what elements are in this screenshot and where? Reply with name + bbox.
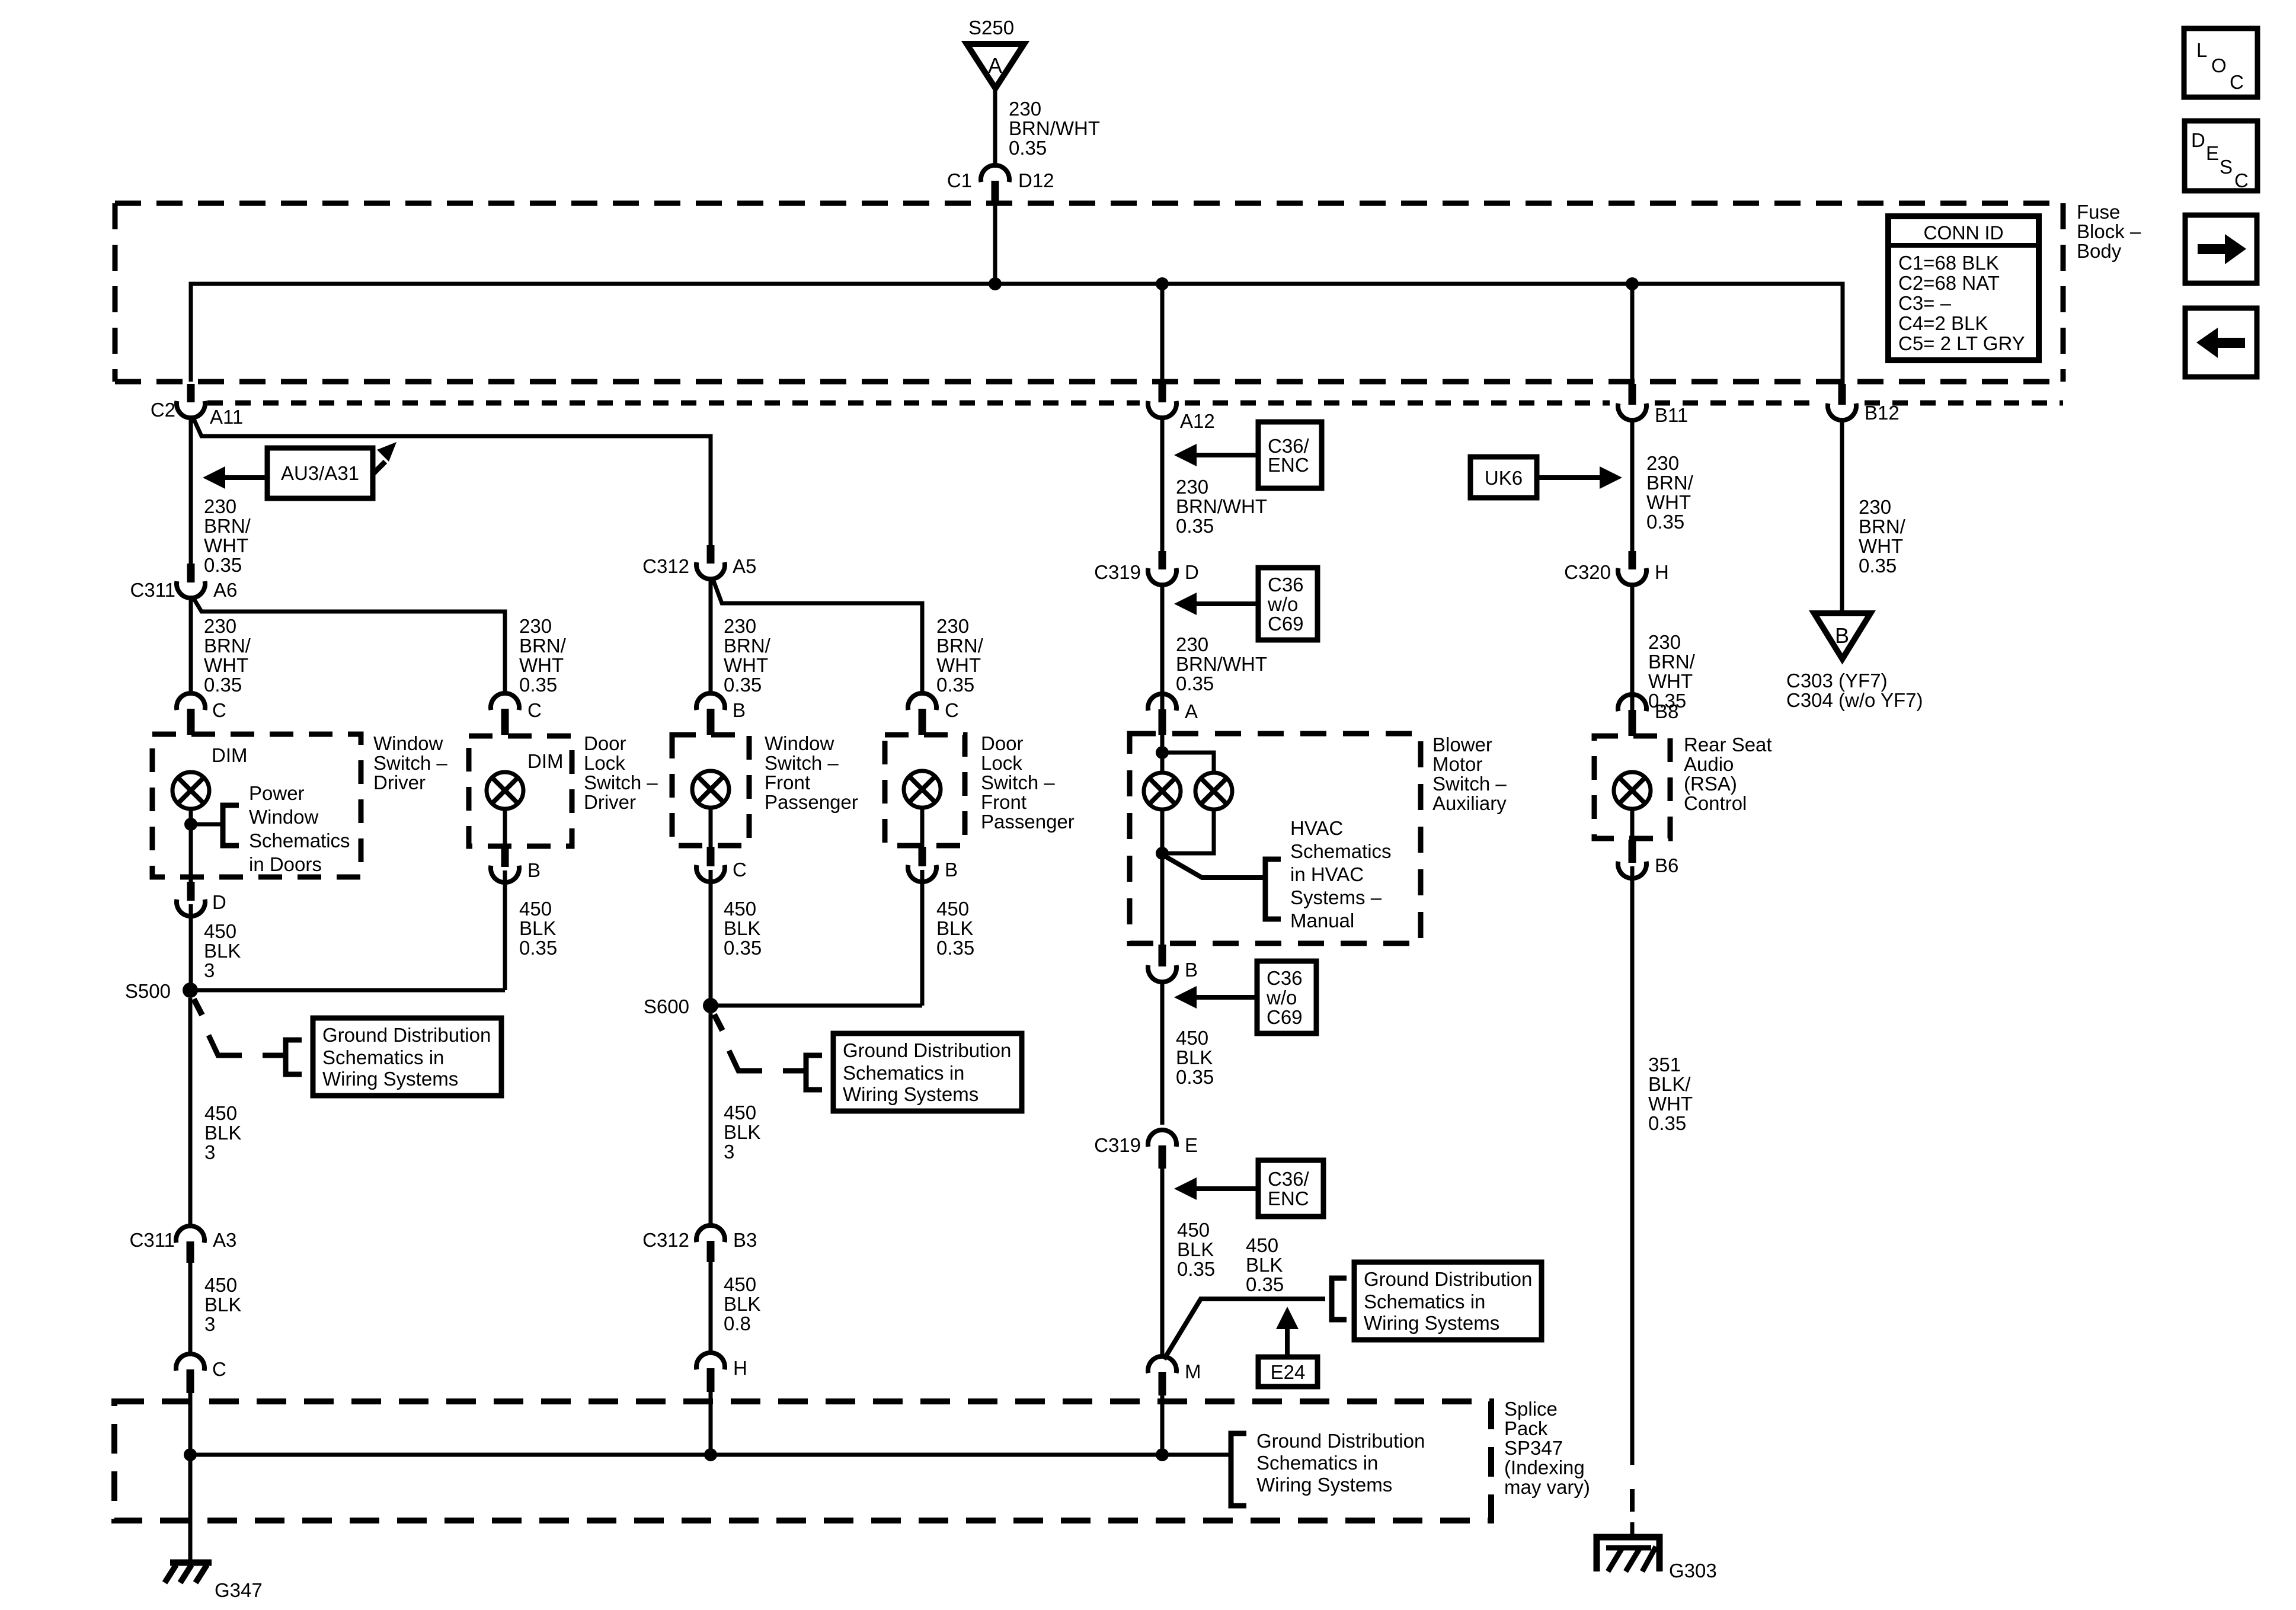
junction bus at A12 drop: [1156, 277, 1169, 290]
connector splice pack pin M: [1148, 1356, 1176, 1395]
wire blower lamp 2 feed: [1162, 753, 1214, 773]
wire lamp to junction: [189, 808, 193, 824]
wire wire 1 below C2: [189, 418, 193, 564]
reference box gd-s600: [833, 1033, 1022, 1111]
wire wire 7 B12 down: [1840, 420, 1844, 613]
dashed box window switch front passenger: [672, 735, 749, 846]
wire pin B to S600 (dl fp): [920, 870, 925, 1006]
wire wire 1 to G347: [188, 1455, 193, 1560]
svg-text:C320: C320: [1564, 561, 1611, 583]
svg-text:B: B: [945, 859, 958, 881]
connector blower motor switch pin B: [1148, 945, 1176, 982]
junction blower lamp junction bottom: [1156, 847, 1169, 860]
svg-text:C1: C1: [947, 169, 972, 191]
connector C311 pin A3: [176, 1226, 204, 1263]
wire blower lamp feed: [1160, 735, 1165, 773]
wire S500 ground stub: [194, 999, 202, 1015]
svg-text:C: C: [527, 699, 542, 721]
wire C into splice pack: [188, 1393, 193, 1455]
svg-text:B: B: [527, 859, 541, 881]
connector C319 pin E: [1148, 1130, 1176, 1169]
svg-text:B8: B8: [1655, 700, 1678, 722]
connector window switch driver pin C: [177, 693, 205, 735]
wire C1 to bus: [993, 204, 997, 284]
wire lamp to pin B: [503, 808, 507, 849]
junction bus at B11 drop: [1626, 277, 1639, 290]
bracket ground distribution M: [1332, 1278, 1347, 1320]
wire fuse block bus: [191, 284, 1843, 384]
bracket ground distribution S600: [806, 1055, 822, 1090]
svg-text:B6: B6: [1655, 854, 1678, 876]
svg-text:DIM: DIM: [212, 744, 248, 766]
reference box c36woc69-1: [1258, 568, 1318, 640]
wire wire 5 A12 to C319 D: [1160, 418, 1165, 551]
lamp blower switch illumination 2: [1195, 773, 1232, 809]
connector door lock front passenger pin B: [908, 847, 936, 882]
arrow UK6 to wire: [1537, 466, 1622, 489]
wire S500 to door lock driver B: [190, 988, 505, 993]
junction bus at C1: [989, 277, 1002, 290]
svg-text:D: D: [1185, 561, 1199, 583]
junction power window schematics tap: [184, 818, 197, 831]
CONN ID table: [1888, 216, 2039, 360]
bracket ground distribution SP347: [1231, 1433, 1246, 1506]
wire HVAC schematics tap: [1164, 856, 1265, 878]
splice reference triangle B (C303/C304): [1814, 613, 1870, 659]
wire lamp2 return: [1162, 809, 1214, 853]
wire wire 1 A6 to lamp C: [189, 598, 193, 691]
svg-text:S250: S250: [968, 17, 1014, 39]
wire wire 3 A5 to pin B: [709, 579, 713, 691]
svg-text:C36w/oC69: C36w/oC69: [1267, 574, 1304, 635]
arrow AU3/A31 to wire: [203, 466, 267, 489]
wire ground distribution tap at M: [1164, 1299, 1325, 1359]
reference box c36enc-2: [1258, 1160, 1323, 1217]
svg-text:C36w/oC69: C36w/oC69: [1266, 967, 1303, 1028]
svg-text:C36/ENC: C36/ENC: [1268, 1168, 1310, 1209]
svg-text:A12: A12: [1180, 410, 1215, 432]
svg-text:C311: C311: [130, 579, 175, 601]
connector C2 pin A11: [177, 384, 205, 418]
wire A11 branch to C312: [193, 417, 711, 546]
junction splice pack at wire 5: [1156, 1448, 1169, 1461]
reference box c36enc-1: [1258, 422, 1322, 488]
svg-text:A: A: [1185, 700, 1198, 722]
fuse block body dashed outline: [115, 203, 2063, 382]
reference box e24: [1258, 1357, 1318, 1387]
wire lamp to pin B6: [1630, 808, 1635, 841]
junction splice pack at wire 3: [704, 1448, 717, 1461]
arrow C36/ENC upper to wire: [1174, 444, 1258, 466]
connector C1 pin D12: [981, 165, 1009, 204]
junction blower lamp junction top: [1156, 746, 1169, 759]
junction splice S600: [703, 998, 718, 1013]
svg-text:E24: E24: [1271, 1361, 1306, 1383]
nav box LOC: [2184, 28, 2257, 97]
svg-text:G347: G347: [215, 1579, 263, 1601]
connector window switch front passenger pin C: [696, 847, 725, 882]
wire S500 ground reference hook: [209, 1035, 242, 1055]
svg-text:450BLK0.35: 450BLK0.35: [1177, 1219, 1215, 1280]
wire bus drop to B11: [1630, 284, 1635, 384]
connector door lock switch driver pin C: [491, 693, 519, 735]
connector door lock front passenger pin C: [908, 693, 936, 735]
svg-text:B: B: [733, 699, 746, 721]
svg-text:A5: A5: [733, 555, 756, 577]
lamp window switch front passenger illumination: [692, 771, 729, 808]
lamp door lock switch driver illumination: [487, 772, 523, 809]
reference box c36woc69-2: [1257, 961, 1316, 1033]
svg-text:450BLK0.35: 450BLK0.35: [724, 898, 762, 959]
arrow C36 w/o C69 upper to wire: [1174, 593, 1258, 615]
wire lamp1 to junction bottom: [1160, 809, 1165, 853]
wire pin D to S500: [189, 904, 193, 990]
nav box arrow right: [2185, 215, 2257, 283]
svg-text:C311: C311: [130, 1229, 175, 1251]
bracket hvac schematics: [1265, 859, 1281, 919]
wire S250 to C1: [993, 88, 997, 168]
connector blower motor switch pin A: [1148, 694, 1176, 735]
reference box uk6: [1470, 457, 1537, 498]
connector C312 pin B3: [696, 1225, 725, 1262]
svg-text:C: C: [212, 1358, 226, 1380]
bracket power window schematics: [223, 805, 239, 846]
connector C2 pin A12: [1148, 384, 1176, 418]
svg-text:A3: A3: [213, 1229, 236, 1251]
connector RSA pin B8: [1618, 694, 1646, 736]
wire wire 6 to G303: [1630, 1522, 1635, 1537]
svg-text:B11: B11: [1655, 404, 1688, 426]
svg-text:450BLK0.35: 450BLK0.35: [519, 898, 557, 959]
dashed box blower motor switch auxiliary: [1130, 734, 1421, 943]
svg-text:UK6: UK6: [1485, 467, 1523, 489]
dashed box door lock switch driver: [469, 736, 572, 846]
connector splice pack pin H: [696, 1353, 725, 1392]
svg-text:450BLK0.35: 450BLK0.35: [936, 898, 974, 959]
nav box DESC: [2185, 121, 2257, 191]
svg-text:A11: A11: [210, 406, 243, 428]
junction splice pack at wire 1: [184, 1448, 197, 1461]
junction splice S500: [183, 982, 198, 998]
svg-text:B3: B3: [733, 1229, 757, 1251]
reference box gd-s500: [313, 1018, 501, 1096]
arrow AU3/A31 diagonal up-right: [373, 442, 396, 474]
svg-text:C312: C312: [642, 1229, 689, 1251]
svg-text:B: B: [1835, 623, 1849, 648]
svg-text:H: H: [733, 1357, 747, 1379]
connector window switch front passenger pin B: [696, 693, 725, 735]
connector C2 pin B12: [1828, 384, 1856, 420]
wire blower to pin B: [1160, 853, 1165, 946]
arrow C36/ENC lower to wire: [1174, 1177, 1258, 1200]
lamp RSA illumination: [1614, 772, 1651, 809]
connector C2 pin B11: [1618, 384, 1646, 420]
svg-text:AU3/A31: AU3/A31: [281, 462, 359, 484]
svg-text:B12: B12: [1865, 402, 1900, 424]
wire wire 6 H to B8: [1630, 585, 1635, 712]
wire junction to pin D: [189, 824, 193, 883]
wire S600 to door lock fp B: [711, 1004, 922, 1008]
connector door lock switch driver pin B: [491, 847, 519, 882]
svg-text:C: C: [733, 859, 747, 881]
svg-text:C: C: [945, 699, 959, 721]
ground G347 (g347): [165, 1563, 212, 1583]
svg-text:C319: C319: [1094, 561, 1141, 583]
svg-text:C2: C2: [151, 399, 175, 421]
wire pin C to S600: [709, 870, 713, 1006]
wire A6 branch to door lock switch driver: [193, 597, 505, 691]
svg-text:E: E: [1185, 1134, 1198, 1156]
svg-text:M: M: [1185, 1361, 1201, 1382]
dotted connector line (fuse block lower connectors): [207, 401, 2063, 406]
wire B6 dashed continuation: [1630, 1489, 1635, 1512]
svg-text:DIM: DIM: [527, 750, 564, 772]
bracket ground distribution S500: [286, 1040, 302, 1074]
wire A5 branch to door lock front passenger: [712, 578, 922, 691]
wire S600 down: [709, 1013, 713, 1226]
wire H into splice pack: [709, 1392, 713, 1455]
wire splice pack bus: [190, 1453, 1231, 1457]
dashed box splice pack SP347: [114, 1401, 1491, 1521]
reference box AU3/A31: [267, 448, 373, 498]
wire wire 5 E to M: [1160, 1169, 1165, 1357]
svg-text:H: H: [1655, 561, 1669, 583]
svg-text:C: C: [212, 699, 226, 721]
svg-text:A6: A6: [213, 579, 237, 601]
wire B3 to splice pack H: [709, 1262, 713, 1354]
lamp blower switch illumination 1: [1144, 773, 1181, 809]
svg-text:B: B: [1185, 959, 1198, 981]
connector C320 pin H: [1618, 551, 1646, 585]
wire lamp to pin B (dl fp): [920, 807, 925, 848]
dashed box door lock switch front passenger: [885, 735, 965, 846]
wire bus drop to A12: [1160, 284, 1165, 384]
svg-text:CONN ID: CONN ID: [1923, 222, 2003, 244]
wire M into splice pack: [1160, 1395, 1165, 1455]
reference box gd-m: [1354, 1262, 1542, 1340]
svg-text:C312: C312: [642, 555, 689, 577]
wire lamp to pin C: [709, 807, 713, 848]
dashed box rear seat audio control: [1594, 736, 1670, 838]
dashed box window switch driver: [152, 734, 361, 877]
wire wire 5 B to C319 E: [1160, 982, 1165, 1125]
svg-text:S600: S600: [644, 996, 689, 1017]
svg-text:A: A: [988, 53, 1002, 78]
svg-text:S500: S500: [125, 980, 171, 1002]
svg-text:C319: C319: [1094, 1134, 1141, 1156]
lamp door lock front passenger illumination: [904, 771, 941, 808]
nav box arrow left: [2185, 308, 2257, 377]
wire wire 6 B11 to C320 H: [1630, 420, 1635, 551]
connector window switch driver pin D: [177, 882, 205, 916]
wire pin B to S500: [503, 870, 507, 990]
svg-text:450BLK0.35: 450BLK0.35: [1246, 1234, 1284, 1295]
svg-text:D: D: [212, 891, 226, 913]
wire S500 down: [188, 998, 193, 1226]
lamp window switch driver illumination: [172, 772, 209, 809]
arrow C36 w/o C69 lower to wire: [1174, 986, 1257, 1009]
wire wire 6 B6 down: [1630, 866, 1635, 1465]
svg-text:D12: D12: [1018, 169, 1054, 191]
connector C311 pin A6: [177, 564, 205, 598]
arrow E24 up: [1276, 1307, 1299, 1357]
wire S600 ground stub: [714, 1014, 722, 1030]
connector RSA pin B6: [1618, 840, 1646, 878]
wire tap to bracket: [191, 822, 223, 827]
wire wire 5 D to blower A: [1160, 585, 1165, 712]
connector splice pack pin C: [176, 1354, 204, 1393]
svg-text:G303: G303: [1669, 1560, 1717, 1582]
splice reference triangle A (S250): [967, 44, 1024, 88]
svg-text:C36/ENC: C36/ENC: [1268, 435, 1310, 476]
wire S500 ground reference dash: [263, 1053, 285, 1058]
wire S600 ground reference hook: [729, 1051, 762, 1071]
wire A3 to splice pack C: [188, 1263, 193, 1355]
ground G303: [1597, 1537, 1659, 1571]
svg-text:450BLK0.35: 450BLK0.35: [1176, 1027, 1214, 1088]
connector C319 pin D: [1148, 551, 1176, 585]
wire S600 ground reference dash: [783, 1068, 805, 1074]
connector C312 pin A5: [696, 545, 725, 579]
